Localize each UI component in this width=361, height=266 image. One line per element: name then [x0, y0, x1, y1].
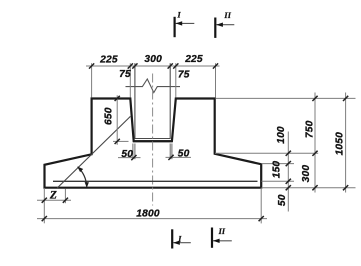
svg-text:I: I	[177, 234, 182, 243]
svg-text:50: 50	[277, 194, 288, 206]
column bottom	[135, 138, 170, 140]
svg-text:150: 150	[272, 161, 283, 179]
svg-text:50: 50	[121, 149, 133, 160]
extension cup right top corner	[175, 63, 177, 97]
svg-text:1050: 1050	[334, 132, 345, 156]
svg-text:II: II	[218, 227, 226, 236]
footing outline with cup socket	[45, 99, 262, 188]
svg-text:II: II	[223, 11, 231, 20]
svg-text:75: 75	[119, 69, 131, 80]
extension pedestal bottom to right	[215, 152, 318, 154]
extension pedestal right corner	[215, 63, 217, 97]
column right face	[169, 63, 171, 139]
section mark II bottom	[212, 227, 232, 248]
extension cup left top corner	[129, 63, 131, 97]
extension pedestal top to right	[216, 97, 356, 99]
cup 50 right dim line	[166, 156, 192, 158]
section mark I top	[175, 11, 195, 38]
svg-text:300: 300	[301, 165, 312, 183]
top dimension line	[86, 65, 220, 67]
1800 dimension line	[37, 218, 267, 220]
svg-text:I: I	[177, 11, 182, 20]
vertical centerline dash-dot	[152, 74, 154, 206]
column left face	[134, 63, 136, 139]
cup bottom thick line	[133, 140, 173, 142]
cup 50 right extensions	[169, 144, 171, 160]
svg-text:1800: 1800	[136, 209, 160, 220]
extension Z right	[64, 189, 66, 204]
650 bottom extension	[113, 140, 129, 142]
extension slab bottom to right	[262, 187, 356, 189]
right outer dim chain	[345, 93, 347, 193]
extension slab right bottom down	[260, 188, 262, 223]
extension slab top to right	[262, 163, 295, 165]
svg-text:225: 225	[184, 54, 203, 65]
extension bedding line to right	[262, 180, 295, 182]
section mark I bottom	[172, 229, 191, 248]
tick marks	[42, 63, 349, 221]
svg-text:75: 75	[178, 69, 190, 80]
extension pedestal left corner	[91, 63, 93, 97]
cup 50 left extensions	[132, 144, 134, 160]
column break line with zigzag	[126, 79, 181, 93]
svg-text:750: 750	[305, 120, 316, 138]
Z dimension line	[37, 199, 71, 201]
svg-text:50: 50	[178, 148, 190, 159]
slope diagonal indicator	[57, 116, 130, 188]
svg-text:650: 650	[104, 107, 115, 125]
svg-text:300: 300	[144, 54, 162, 65]
svg-text:Z: Z	[49, 189, 57, 201]
svg-text:100: 100	[276, 126, 287, 144]
angle arc with arrows	[77, 167, 89, 188]
right middle dim chain	[314, 93, 316, 193]
right inner dim chain	[287, 132, 289, 212]
cup 50 left dim line	[118, 157, 141, 159]
extension slab left bottom down	[43, 188, 45, 223]
section mark II top	[215, 11, 234, 38]
650 dimension line	[116, 95, 118, 145]
svg-text:225: 225	[99, 55, 118, 66]
slab inner line (50 bedding)	[53, 180, 258, 182]
